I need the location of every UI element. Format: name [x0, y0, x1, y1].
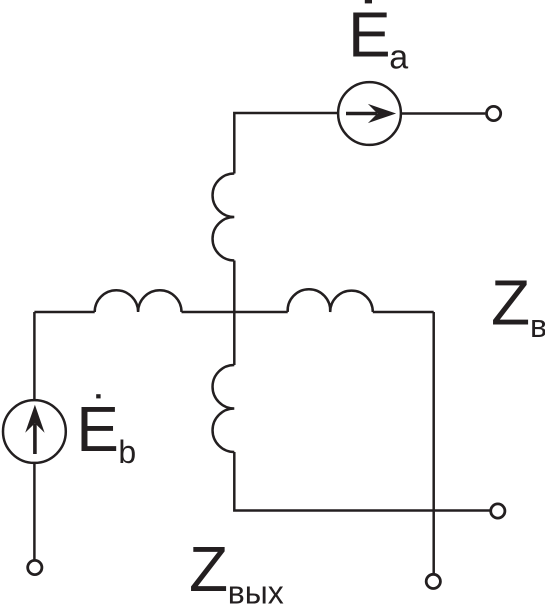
svg-text:b: b [118, 434, 136, 470]
terminal bottom-left (open circle) [28, 560, 42, 574]
wire top horizontal from corner to source Ea [234, 113, 346, 174]
terminal bottom of right branch (open circle) [426, 574, 440, 588]
svg-text:E: E [348, 0, 391, 70]
inductor right horizontal (2 arcs) [288, 289, 373, 312]
wire center vertical down then right to bottom terminal [234, 452, 489, 511]
wire center vertical through junction [233, 261, 236, 366]
inductor bottom-center vertical (2 arcs) [213, 365, 235, 452]
wire horizontal middle segment [182, 311, 288, 314]
EMF source Ea (circle with right arrow) [338, 82, 401, 145]
svg-text:a: a [389, 38, 408, 76]
svg-text:вых: вых [228, 575, 284, 604]
svg-text:Z: Z [491, 267, 530, 339]
label Ea dot (clipped at top) [365, 0, 372, 3]
wire horizontal left segment [34, 311, 94, 314]
wire horizontal right segment to corner [373, 311, 434, 314]
inductor left horizontal (2 arcs) [95, 290, 182, 312]
EMF source Eb (circle with up arrow) [3, 400, 66, 463]
svg-text:Z: Z [189, 533, 228, 604]
wire right vertical down to bottom terminal [432, 312, 435, 573]
terminal top-right (open circle) [487, 106, 501, 120]
wire left vertical down to source Eb [33, 312, 36, 400]
svg-text:в: в [530, 308, 545, 344]
wire from source Eb to bottom-left terminal [33, 463, 36, 559]
label Eb dot [96, 394, 100, 398]
svg-text:E: E [76, 393, 119, 465]
terminal bottom-right on output wire (open circle) [491, 504, 505, 518]
wire from source Ea to top-right terminal [393, 112, 485, 115]
inductor top-center vertical (2 arcs) [213, 174, 235, 261]
